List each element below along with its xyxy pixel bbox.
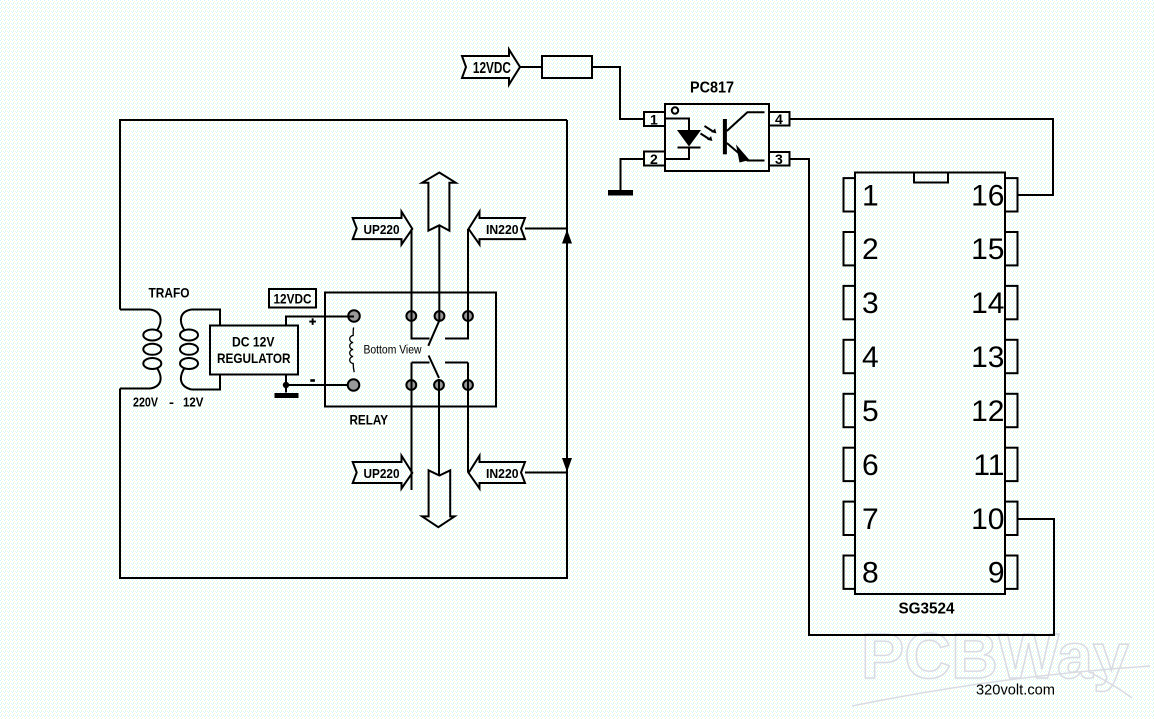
svg-text:7: 7 — [862, 503, 879, 536]
svg-text:UP220: UP220 — [364, 222, 400, 237]
svg-text:12VDC: 12VDC — [274, 291, 312, 307]
svg-text:16: 16 — [971, 179, 1004, 212]
svg-text:15: 15 — [971, 233, 1004, 266]
svg-text:4: 4 — [862, 341, 879, 374]
svg-text:14: 14 — [971, 287, 1004, 320]
svg-text:-: - — [169, 395, 174, 410]
svg-text:9: 9 — [988, 557, 1005, 590]
svg-text:3: 3 — [862, 287, 879, 320]
svg-text:PC817: PC817 — [690, 80, 734, 97]
svg-text:13: 13 — [971, 341, 1004, 374]
svg-text:TRAFO: TRAFO — [149, 285, 190, 301]
svg-text:5: 5 — [862, 395, 879, 428]
svg-text:3: 3 — [775, 151, 783, 167]
svg-text:IN220: IN220 — [486, 466, 519, 481]
svg-text:1: 1 — [862, 179, 879, 212]
svg-text:12VDC: 12VDC — [473, 60, 511, 77]
svg-text:2: 2 — [650, 151, 658, 167]
svg-text:12: 12 — [971, 395, 1004, 428]
svg-text:Bottom View: Bottom View — [364, 345, 423, 357]
svg-text:12V: 12V — [183, 395, 204, 410]
svg-text:4: 4 — [775, 111, 783, 127]
svg-text:220V: 220V — [133, 395, 158, 410]
svg-text:11: 11 — [973, 449, 1004, 482]
svg-text:1: 1 — [650, 112, 658, 128]
svg-text:8: 8 — [862, 557, 879, 590]
svg-text:320volt.com: 320volt.com — [976, 682, 1055, 699]
svg-text:IN220: IN220 — [486, 222, 519, 237]
svg-text:2: 2 — [862, 233, 879, 266]
svg-text:SG3524: SG3524 — [899, 601, 955, 618]
svg-text:REGULATOR: REGULATOR — [217, 350, 291, 366]
svg-text:6: 6 — [862, 449, 879, 482]
svg-text:RELAY: RELAY — [350, 413, 389, 428]
svg-text:10: 10 — [971, 503, 1004, 536]
svg-text:DC 12V: DC 12V — [232, 334, 275, 350]
svg-text:UP220: UP220 — [364, 466, 400, 481]
